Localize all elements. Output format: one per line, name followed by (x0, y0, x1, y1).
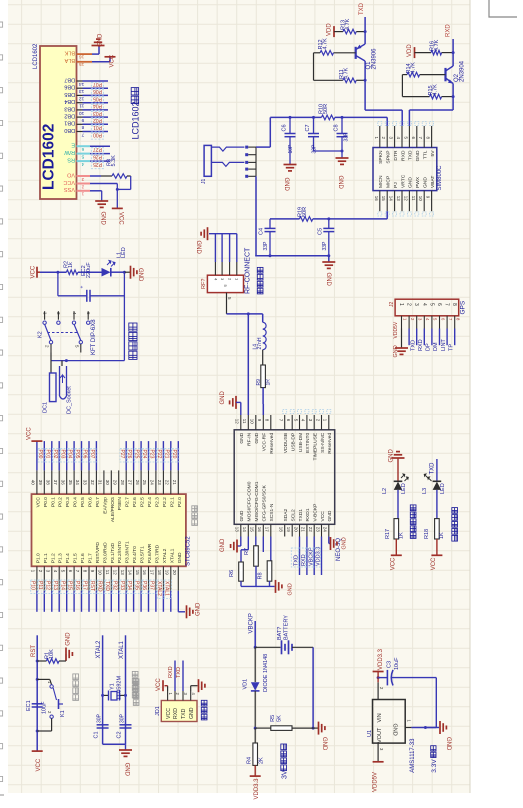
svg-text:GND: GND (445, 737, 451, 751)
svg-text:Reserved: Reserved (269, 433, 275, 454)
svg-text:36: 36 (60, 480, 65, 486)
svg-text:VCC: VCC (166, 708, 172, 719)
svg-text:6: 6 (436, 303, 442, 306)
svg-text:GND: GND (342, 537, 348, 549)
svg-text:P27: P27 (93, 146, 102, 152)
svg-text:20: 20 (172, 570, 177, 576)
svg-text:DB1: DB1 (64, 120, 75, 126)
svg-text:Y1: Y1 (110, 683, 116, 690)
svg-text:TXD1: TXD1 (298, 509, 304, 522)
svg-text:TXD: TXD (429, 462, 435, 475)
svg-text:GND: GND (389, 449, 395, 463)
svg-text:P2.6: P2.6 (132, 497, 138, 507)
svg-text:1K: 1K (439, 532, 445, 539)
svg-text:MISO/CFG-COM1: MISO/CFG-COM1 (254, 481, 260, 521)
svg-text:P26: P26 (126, 450, 132, 459)
svg-text:P13: P13 (52, 581, 58, 590)
svg-text:DB3: DB3 (64, 105, 75, 111)
svg-text:33P: 33P (322, 241, 328, 251)
svg-text:14: 14 (79, 81, 85, 87)
svg-text:32: 32 (90, 480, 95, 486)
svg-text:P3.1/TxD: P3.1/TxD (110, 542, 116, 563)
svg-text:VCC: VCC (156, 678, 162, 691)
svg-text:GND: GND (337, 176, 343, 190)
svg-text:P1.5: P1.5 (73, 553, 79, 563)
svg-text:19: 19 (165, 570, 170, 576)
svg-text:21: 21 (172, 480, 177, 486)
svg-text:VDD3.3: VDD3.3 (378, 648, 384, 670)
svg-text:7: 7 (444, 303, 450, 306)
svg-text:22: 22 (165, 480, 170, 486)
svg-text:10: 10 (250, 419, 255, 425)
svg-text:P0.6: P0.6 (88, 497, 94, 507)
svg-text:V-BCKP: V-BCKP (313, 504, 319, 522)
svg-text:R17: R17 (385, 529, 391, 539)
svg-text:MOSI/CFG-COM0: MOSI/CFG-COM0 (247, 481, 253, 521)
svg-text:2N3906: 2N3906 (371, 48, 377, 70)
svg-text:PSEN: PSEN (117, 497, 123, 511)
svg-text:AMS1117-33: AMS1117-33 (410, 738, 416, 773)
svg-text:33P: 33P (343, 132, 349, 142)
svg-text:VDD5V: VDD5V (393, 321, 399, 338)
svg-text:P2.0: P2.0 (177, 497, 183, 507)
svg-text:GND: GND (100, 212, 106, 226)
svg-text:BLK: BLK (64, 50, 75, 56)
svg-text:24: 24 (150, 480, 155, 486)
svg-text:10: 10 (79, 110, 85, 116)
svg-text:VO: VO (66, 171, 75, 177)
svg-text:39: 39 (38, 480, 43, 486)
svg-text:P03: P03 (59, 450, 65, 459)
svg-text:LCD1602: LCD1602 (33, 43, 39, 69)
svg-text:VOUT: VOUT (377, 727, 383, 743)
svg-text:DM: DM (433, 342, 439, 351)
svg-text:P2.1: P2.1 (169, 497, 175, 507)
svg-text:220uF: 220uF (86, 262, 92, 278)
svg-text:P0.0: P0.0 (43, 497, 49, 507)
svg-text:27nH: 27nH (257, 337, 263, 349)
svg-text:P3.2/INT0: P3.2/INT0 (117, 541, 123, 563)
svg-text:L2: L2 (382, 488, 388, 494)
svg-text:28: 28 (120, 480, 125, 486)
svg-text:RXD: RXD (173, 708, 179, 719)
svg-text:P01: P01 (93, 124, 102, 130)
svg-text:P36: P36 (141, 581, 147, 590)
svg-text:P1.0: P1.0 (35, 553, 41, 563)
svg-text:19: 19 (286, 527, 291, 533)
svg-text:BATTERY: BATTERY (284, 615, 290, 640)
svg-text:DB7: DB7 (64, 76, 75, 82)
svg-text:10K: 10K (49, 649, 55, 659)
svg-text:4.7K: 4.7K (322, 38, 328, 50)
svg-text:GND: GND (393, 345, 399, 357)
svg-text:R7: R7 (244, 548, 250, 555)
svg-text:R18: R18 (424, 529, 430, 539)
svg-text:BAT?: BAT? (277, 627, 283, 640)
svg-text:11.0592M: 11.0592M (117, 676, 123, 700)
svg-text:VCC: VCC (36, 758, 42, 771)
svg-text:RXD1: RXD1 (305, 508, 311, 521)
svg-text:DC1: DC1 (43, 402, 49, 413)
svg-text:GND: GND (137, 268, 143, 282)
svg-text:P27: P27 (119, 450, 125, 459)
svg-text:DC_Socket: DC_Socket (67, 386, 73, 414)
svg-text:P1.3: P1.3 (58, 553, 64, 563)
svg-text:RST: RST (89, 581, 95, 591)
svg-text:SPKN: SPKN (378, 150, 384, 164)
svg-text:P25: P25 (134, 450, 140, 459)
svg-text:P2.4: P2.4 (147, 497, 153, 507)
svg-text:LCD1602: LCD1602 (41, 124, 58, 190)
svg-text:P20: P20 (171, 450, 177, 459)
svg-text:11: 11 (79, 103, 84, 109)
svg-text:1K: 1K (398, 532, 404, 539)
svg-text:20: 20 (293, 527, 298, 533)
svg-text:14: 14 (127, 570, 132, 576)
svg-text:P06: P06 (93, 88, 102, 94)
svg-text:VSS: VSS (64, 186, 75, 192)
svg-text:8: 8 (451, 303, 457, 306)
svg-text:GND: GND (254, 432, 260, 443)
svg-text:PJ: PJ (393, 182, 399, 188)
svg-text:C4: C4 (259, 228, 265, 235)
svg-text:23: 23 (157, 480, 162, 486)
svg-text:GND: GND (66, 632, 72, 646)
svg-text:XTAL2: XTAL2 (96, 640, 102, 659)
svg-text:LINT: LINT (441, 338, 447, 351)
svg-text:13: 13 (120, 570, 125, 576)
svg-text:P0.3: P0.3 (65, 497, 71, 507)
svg-text:14: 14 (389, 196, 394, 202)
svg-text:P15: P15 (67, 581, 73, 590)
svg-text:GND: GND (239, 510, 245, 521)
svg-text:LED: LED (121, 247, 127, 258)
svg-text:24: 24 (323, 527, 328, 533)
svg-text:5: 5 (428, 303, 434, 306)
svg-text:P2.5: P2.5 (140, 497, 146, 507)
svg-text:P3.4/T0: P3.4/T0 (132, 546, 138, 563)
svg-text:22: 22 (308, 527, 313, 533)
svg-text:23: 23 (315, 527, 320, 533)
svg-text:VDDUSB: VDDUSB (283, 433, 289, 453)
svg-text:P00: P00 (37, 450, 43, 459)
svg-text:P14: P14 (59, 581, 65, 590)
svg-text:J1: J1 (201, 179, 207, 185)
svg-text:GND: GND (392, 724, 398, 736)
svg-text:17: 17 (150, 570, 155, 576)
svg-text:12: 12 (79, 95, 85, 101)
svg-text:P24: P24 (141, 450, 147, 459)
svg-text:DB4: DB4 (64, 98, 75, 104)
svg-text:SIM800C: SIM800C (437, 165, 443, 191)
svg-text:R5: R5 (270, 715, 276, 722)
svg-text:R/W: R/W (64, 149, 76, 155)
svg-text:GND: GND (408, 177, 414, 188)
svg-text:C7: C7 (305, 124, 311, 131)
svg-text:DIODE 1N4148: DIODE 1N4148 (263, 654, 269, 692)
svg-text:GND: GND (423, 177, 429, 188)
svg-text:DB5: DB5 (64, 91, 75, 97)
svg-text:13: 13 (235, 527, 240, 533)
svg-text:Reserved: Reserved (327, 433, 333, 454)
svg-text:31: 31 (98, 480, 103, 486)
svg-text:VCC-RF: VCC-RF (262, 433, 268, 451)
svg-text:TXD: TXD (408, 150, 414, 160)
svg-text:P2.3: P2.3 (154, 497, 160, 507)
svg-text:VCC: VCC (320, 511, 326, 522)
svg-text:STC89C52: STC89C52 (186, 536, 192, 566)
svg-text:18: 18 (157, 570, 162, 576)
svg-text:VD1: VD1 (242, 679, 248, 690)
svg-text:VBAT: VBAT (430, 176, 436, 188)
svg-text:EA/Vpp: EA/Vpp (102, 497, 108, 514)
svg-text:XTAL1: XTAL1 (119, 640, 125, 659)
svg-text:GND: GND (288, 583, 294, 595)
svg-text:VCC: VCC (35, 497, 41, 508)
svg-text:1R: 1R (265, 379, 271, 386)
svg-text:C5: C5 (318, 228, 324, 235)
svg-text:10P: 10P (288, 144, 294, 154)
svg-text:KFT DIP-6X8: KFT DIP-6X8 (91, 319, 97, 355)
svg-text:SPKP: SPKP (386, 151, 392, 164)
svg-text:MICP: MICP (386, 176, 392, 188)
svg-text:XTAL2: XTAL2 (162, 548, 168, 563)
svg-text:VCC: VCC (118, 212, 124, 225)
svg-text:DB2: DB2 (64, 113, 75, 119)
svg-text:P37: P37 (149, 581, 155, 590)
svg-text:RXD: RXD (400, 150, 406, 161)
svg-text:25: 25 (142, 480, 147, 486)
svg-text:LCD1602: LCD1602 (131, 101, 141, 139)
svg-text:5K: 5K (276, 715, 282, 722)
svg-text:VDD: VDD (407, 44, 413, 57)
svg-text:27: 27 (127, 480, 132, 486)
svg-text:P21: P21 (163, 450, 169, 459)
svg-text:SS-N/NC: SS-N/NC (320, 432, 326, 453)
svg-text:10uF: 10uF (394, 657, 400, 670)
svg-text:P2.7: P2.7 (125, 497, 131, 507)
svg-text:P1.1: P1.1 (43, 553, 49, 563)
svg-text:USB-DP: USB-DP (291, 433, 297, 451)
svg-text:P06: P06 (82, 450, 88, 459)
svg-text:VRTC: VRTC (400, 174, 406, 188)
svg-text:R4: R4 (246, 757, 252, 764)
svg-text:P12: P12 (44, 581, 50, 590)
svg-text:P17: P17 (82, 581, 88, 590)
svg-text:13: 13 (79, 88, 85, 94)
svg-text:C3: C3 (386, 661, 392, 668)
svg-text:E: E (71, 142, 75, 148)
svg-text:P33: P33 (119, 581, 125, 590)
svg-text:GND: GND (239, 432, 245, 443)
svg-text:10uF: 10uF (41, 701, 47, 714)
svg-text:33P: 33P (311, 144, 317, 154)
svg-text:3V: 3V (282, 770, 289, 779)
svg-text:GND: GND (283, 178, 289, 192)
svg-text:GND: GND (415, 150, 421, 161)
svg-text:VCC: VCC (390, 557, 396, 570)
svg-text:37: 37 (53, 480, 58, 486)
svg-text:35: 35 (68, 480, 73, 486)
svg-text:MICN: MICN (378, 175, 384, 188)
svg-text:C8: C8 (334, 124, 340, 131)
svg-text:VDD5V: VDD5V (372, 772, 378, 792)
svg-text:P01: P01 (44, 450, 50, 459)
svg-text:VDD3.3: VDD3.3 (254, 778, 260, 800)
svg-text:P0.2: P0.2 (58, 497, 64, 507)
svg-text:4.7K: 4.7K (432, 84, 438, 96)
svg-text:15: 15 (250, 527, 255, 533)
svg-text:P16: P16 (74, 581, 80, 590)
svg-text:15: 15 (135, 570, 140, 576)
svg-text:12: 12 (112, 570, 117, 576)
svg-text:J2: J2 (389, 302, 395, 308)
svg-text:TXD: TXD (410, 340, 416, 351)
svg-text:P22: P22 (156, 450, 162, 459)
svg-text:+: + (80, 286, 86, 289)
svg-text:P32: P32 (111, 581, 117, 590)
svg-text:C6: C6 (282, 124, 288, 131)
svg-text:DB0: DB0 (64, 127, 75, 133)
svg-text:RXD: RXD (168, 666, 174, 678)
svg-text:P04: P04 (67, 450, 73, 459)
svg-text:P0.5: P0.5 (80, 497, 86, 507)
svg-text:P3.0/RxD: P3.0/RxD (102, 542, 108, 563)
svg-text:C2: C2 (117, 731, 123, 738)
svg-text:GND: GND (177, 552, 183, 563)
svg-text:P1.2: P1.2 (50, 553, 56, 563)
svg-text:TP: TP (448, 344, 454, 351)
svg-text:12: 12 (235, 419, 240, 425)
svg-text:VCC: VCC (431, 557, 437, 570)
svg-text:PWX: PWX (415, 176, 421, 188)
svg-text:XTAL1: XTAL1 (169, 548, 175, 563)
svg-text:P35: P35 (134, 581, 140, 590)
svg-text:RF?: RF? (201, 279, 207, 289)
svg-text:CFG-GPS0/SCK: CFG-GPS0/SCK (262, 484, 268, 521)
svg-text:VCC: VCC (31, 265, 37, 278)
svg-text:U1: U1 (367, 730, 373, 737)
svg-text:26: 26 (135, 480, 140, 486)
svg-text:P1.4: P1.4 (65, 553, 71, 563)
svg-text:P02: P02 (93, 117, 102, 123)
svg-text:P3.7/RD: P3.7/RD (154, 544, 160, 563)
svg-text:P05: P05 (93, 95, 102, 101)
svg-text:7: 7 (81, 131, 84, 137)
svg-text:11: 11 (411, 196, 416, 201)
svg-text:P0.4: P0.4 (73, 497, 79, 507)
svg-text:GND: GND (220, 538, 226, 552)
svg-text:TXD: TXD (176, 667, 182, 678)
svg-text:14: 14 (242, 527, 247, 533)
svg-text:GND: GND (321, 737, 327, 751)
svg-text:VCC: VCC (26, 427, 32, 440)
svg-text:33: 33 (83, 480, 88, 486)
svg-text:16: 16 (374, 196, 379, 202)
svg-text:SCS1-N: SCS1-N (269, 503, 275, 521)
svg-text:P3.6/WR: P3.6/WR (147, 543, 153, 563)
svg-text:P07: P07 (89, 450, 95, 459)
svg-text:P05: P05 (74, 450, 80, 459)
svg-text:3: 3 (413, 303, 419, 306)
svg-text:GND: GND (327, 510, 333, 521)
svg-text:P3.5/T1: P3.5/T1 (140, 546, 146, 563)
svg-text:RS: RS (67, 157, 75, 163)
svg-text:GND: GND (325, 273, 331, 287)
svg-text:R6: R6 (229, 570, 235, 577)
svg-text:34: 34 (75, 480, 80, 486)
svg-text:EXTINT0: EXTINT0 (305, 433, 311, 453)
svg-text:K2: K2 (38, 331, 44, 338)
svg-text:38: 38 (46, 480, 51, 486)
svg-text:GND: GND (98, 33, 104, 47)
svg-text:4: 4 (421, 303, 427, 306)
svg-text:50R: 50R (323, 104, 329, 114)
svg-text:C1: C1 (94, 731, 100, 738)
svg-text:ALE/PROG: ALE/PROG (110, 497, 116, 522)
svg-text:VDD3.3: VDD3.3 (316, 547, 322, 566)
svg-text:GND: GND (195, 241, 201, 255)
svg-text:EC1: EC1 (26, 700, 32, 711)
svg-text:RF-IN: RF-IN (247, 432, 253, 446)
svg-text:16: 16 (142, 570, 147, 576)
svg-text:2N3904: 2N3904 (459, 60, 465, 82)
svg-text:R9: R9 (256, 379, 262, 386)
svg-text:GND: GND (220, 391, 226, 405)
svg-text:8: 8 (81, 124, 84, 130)
svg-text:11: 11 (105, 570, 110, 575)
svg-text:TXD: TXD (359, 2, 365, 15)
svg-text:P34: P34 (126, 581, 132, 590)
svg-text:50R: 50R (302, 207, 308, 217)
svg-text:P26: P26 (93, 154, 102, 160)
svg-text:GPS: GPS (459, 300, 466, 314)
svg-text:VCC: VCC (63, 179, 75, 185)
svg-text:33P: 33P (263, 241, 269, 251)
svg-text:11: 11 (242, 419, 247, 424)
svg-text:17: 17 (265, 527, 270, 533)
svg-text:USB-DM: USB-DM (298, 433, 304, 452)
svg-text:30P: 30P (96, 713, 102, 723)
svg-text:P3.3/INT1: P3.3/INT1 (125, 541, 131, 563)
svg-text:2: 2 (406, 303, 412, 306)
svg-text:TXD: TXD (181, 708, 187, 719)
svg-text:5.3K: 5.3K (111, 155, 117, 167)
svg-text:1: 1 (398, 303, 404, 306)
svg-text:SDA2: SDA2 (283, 508, 289, 521)
svg-text:P10: P10 (30, 581, 36, 590)
svg-text:18: 18 (279, 527, 284, 533)
svg-text:30: 30 (105, 480, 110, 486)
svg-text:13: 13 (396, 196, 401, 202)
svg-text:P04: P04 (93, 103, 102, 109)
svg-text:P0.7: P0.7 (95, 497, 101, 507)
svg-text:40: 40 (31, 480, 36, 486)
svg-text:TIMEPLUSE: TIMEPLUSE (313, 432, 319, 460)
svg-text:21: 21 (301, 527, 306, 533)
svg-text:4.7K: 4.7K (345, 18, 351, 30)
svg-text:RXD: RXD (418, 339, 424, 351)
svg-text:2K: 2K (258, 757, 264, 764)
svg-text:P0.1: P0.1 (50, 497, 56, 507)
svg-text:P25: P25 (93, 161, 102, 167)
svg-text:SCL2: SCL2 (291, 509, 297, 522)
svg-text:GND: GND (189, 707, 195, 719)
svg-text:15: 15 (381, 196, 386, 202)
svg-text:VBCKP: VBCKP (248, 613, 254, 633)
svg-text:DP: DP (426, 343, 432, 351)
svg-text:P1.6: P1.6 (80, 553, 86, 563)
